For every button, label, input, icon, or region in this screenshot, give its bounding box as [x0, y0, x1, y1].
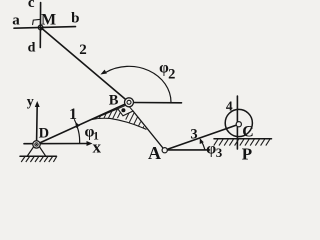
horizontal reference line at B: [134, 102, 182, 104]
angle phi1 arc: [76, 124, 79, 143]
svg-text:2: 2: [168, 66, 175, 82]
arrowhead y-axis: [35, 101, 40, 107]
arrowhead phi1: [75, 122, 80, 128]
svg-text:b: b: [71, 10, 79, 26]
arrowhead phi2: [100, 70, 107, 75]
svg-text:P: P: [242, 145, 252, 163]
svg-text:a: a: [12, 12, 20, 28]
slider joint M: [38, 25, 43, 30]
guide line c-d: [39, 3, 41, 48]
label-1 leader arrow: [74, 120, 76, 125]
ground line at D: [20, 155, 57, 157]
wheel 4 rim: [225, 109, 252, 136]
link 1 D-B: [37, 102, 130, 144]
support triangle at D: [27, 146, 45, 156]
svg-text:B: B: [109, 93, 119, 109]
guide line a-b: [14, 27, 76, 29]
svg-text:4: 4: [226, 98, 233, 113]
svg-text:M: M: [41, 11, 56, 28]
svg-text:A: A: [148, 143, 161, 163]
svg-text:φ: φ: [206, 141, 216, 158]
svg-text:x: x: [93, 137, 102, 156]
svg-text:3: 3: [216, 145, 223, 160]
hatching under ground at P: [214, 139, 270, 146]
horizontal reference at A: [167, 149, 209, 151]
arrowhead phi3: [200, 138, 204, 144]
hatching under ground at D: [21, 157, 56, 163]
center dot in diamond: [121, 108, 125, 112]
link B-A lower arm: [133, 111, 165, 150]
link 3 A-C: [165, 124, 239, 150]
y-axis line: [36, 105, 39, 142]
wheel hub C: [236, 122, 241, 127]
x-axis line: [24, 143, 89, 145]
link 2 M-B: [41, 27, 129, 102]
pin A: [162, 148, 167, 153]
pin D: [33, 141, 40, 148]
wheel axis vertical line: [236, 96, 238, 149]
svg-text:C: C: [242, 123, 254, 140]
angle phi2 arc: [106, 66, 172, 102]
svg-text:d: d: [28, 40, 36, 55]
rocker pivot diamond below B: [118, 105, 133, 116]
coupler plate outline (curved link): [92, 109, 146, 130]
paper background: [0, 0, 274, 163]
hatching: coupler plate left wing: [93, 108, 148, 132]
angle phi3 arc: [200, 140, 205, 150]
svg-text:D: D: [39, 126, 49, 142]
svg-text:1: 1: [69, 106, 77, 123]
svg-text:2: 2: [79, 42, 87, 58]
svg-text:y: y: [27, 95, 34, 110]
angle tick at M: [33, 19, 40, 24]
arrowhead x-axis: [87, 141, 93, 146]
svg-text:c: c: [28, 0, 35, 11]
pivot joint B: [125, 98, 134, 107]
ground line at P: [214, 138, 272, 140]
svg-text:3: 3: [190, 126, 197, 142]
